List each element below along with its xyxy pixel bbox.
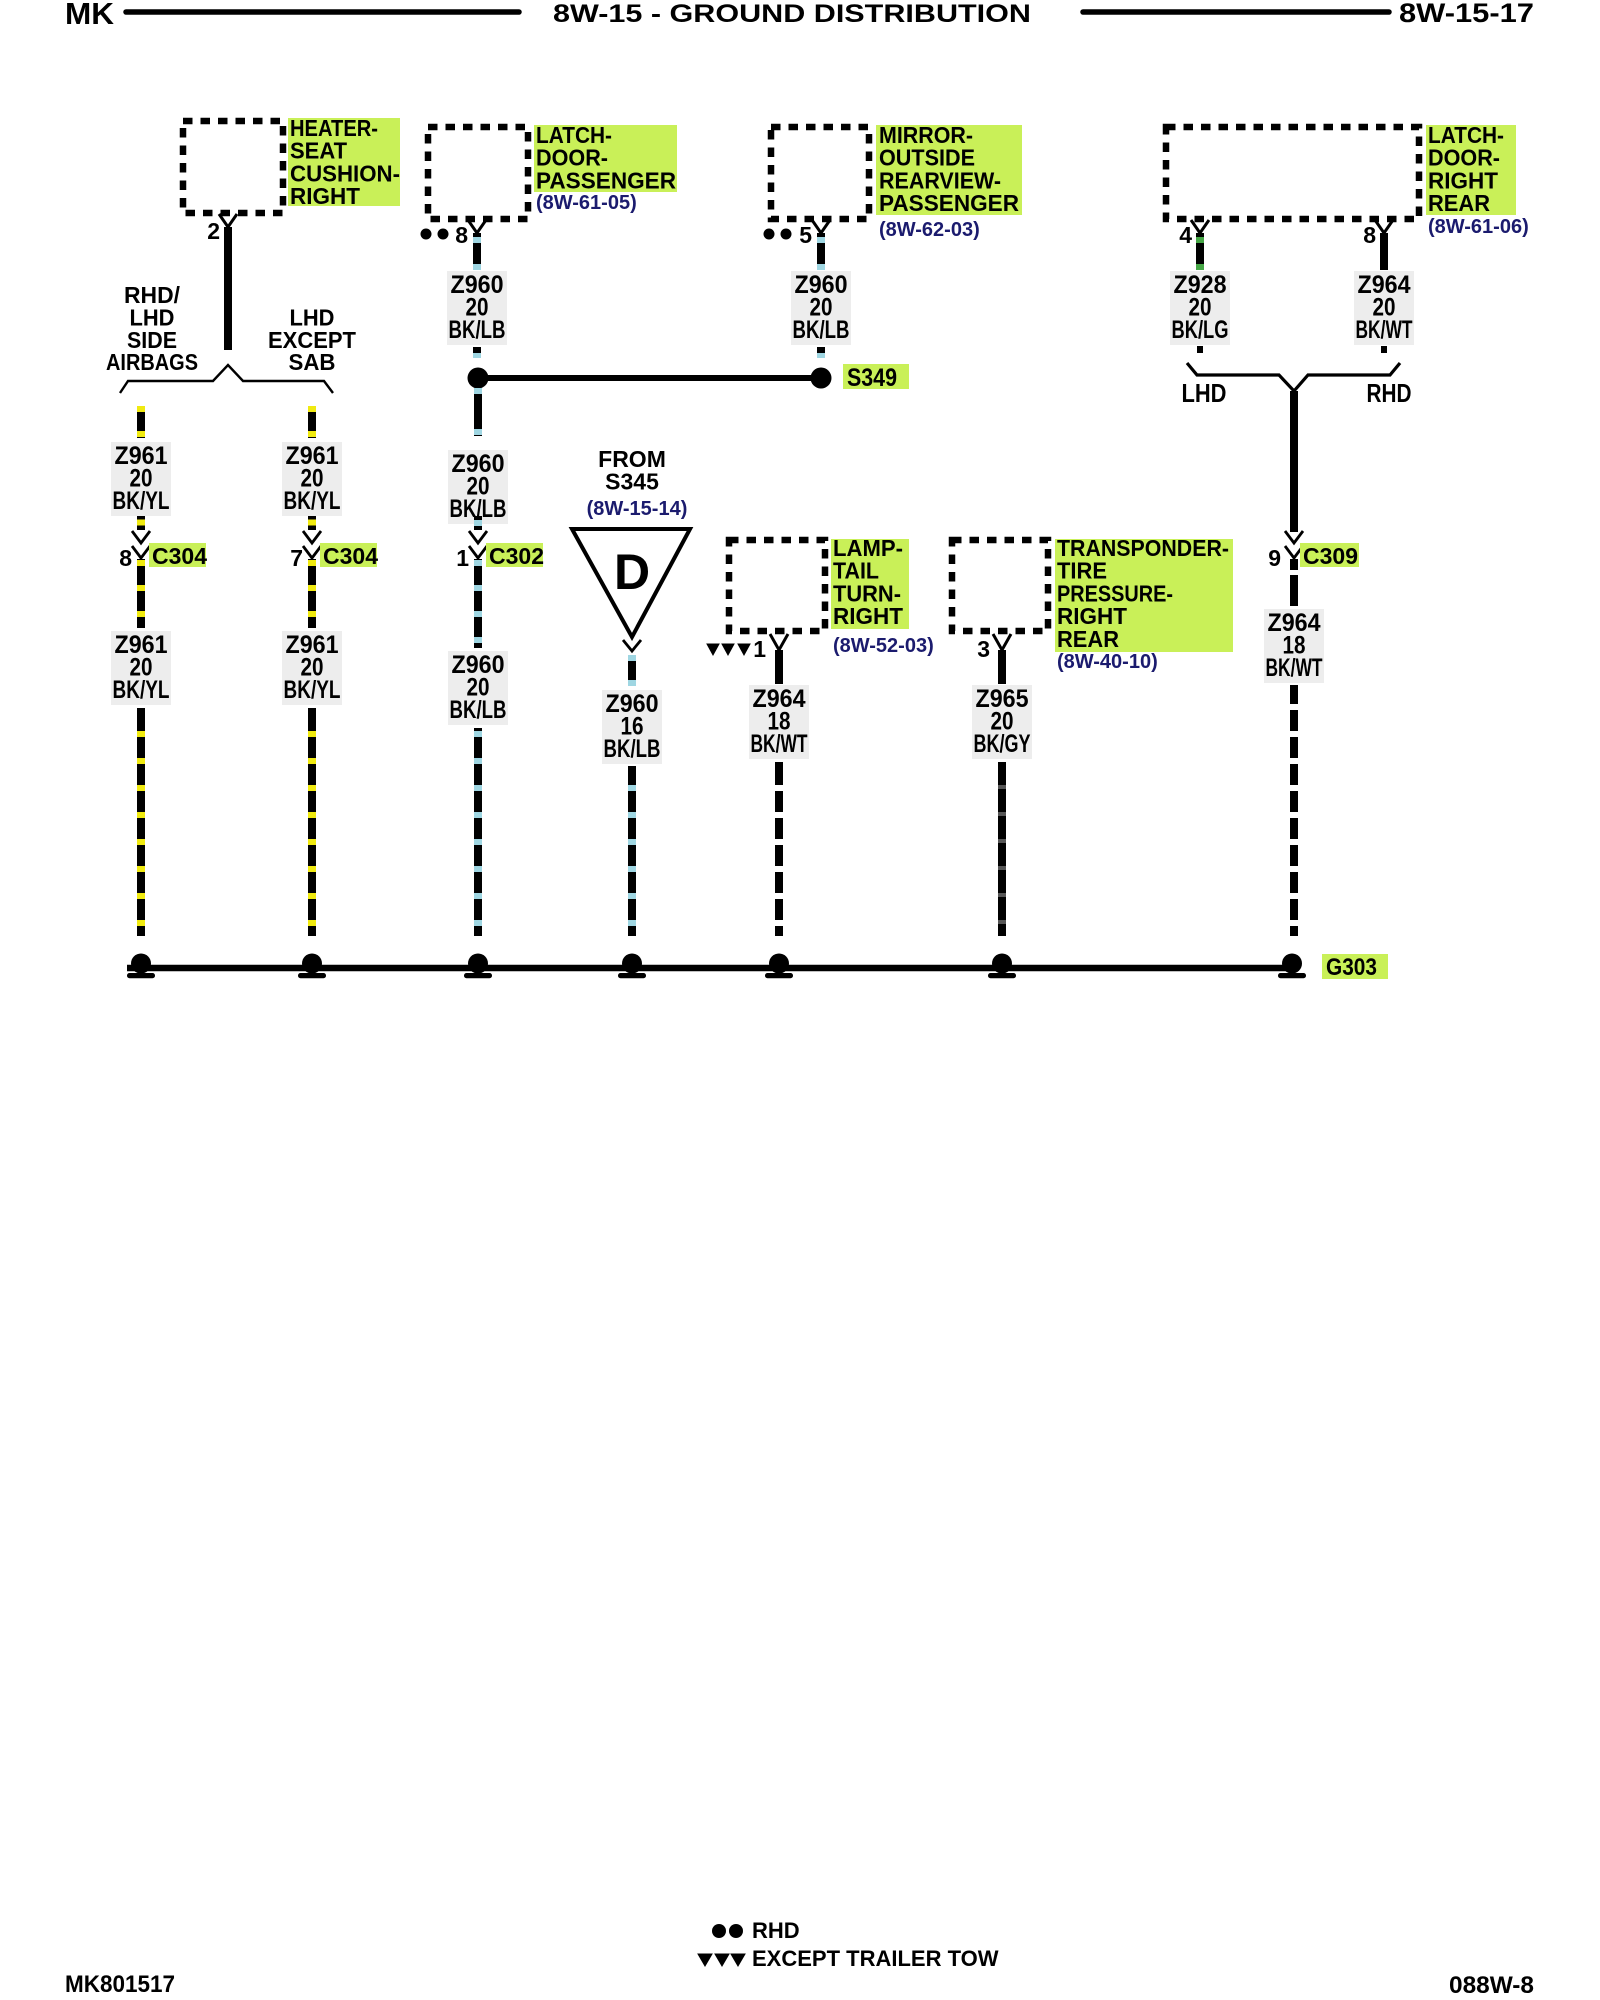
svg-text:(8W-61-06): (8W-61-06) [1428,216,1529,238]
svg-text:RIGHT: RIGHT [833,603,903,629]
svg-text:EXCEPT TRAILER TOW: EXCEPT TRAILER TOW [752,1946,999,1971]
svg-text:G303: G303 [1326,954,1377,981]
svg-text:RHD: RHD [752,1918,800,1943]
svg-text:LHD: LHD [1182,378,1227,408]
svg-text:8W-15-17: 8W-15-17 [1399,0,1534,28]
svg-text:BK/WT: BK/WT [1356,316,1413,344]
svg-text:(8W-62-03): (8W-62-03) [879,219,980,241]
svg-text:BK/LB: BK/LB [793,316,850,344]
svg-text:C302: C302 [489,543,544,569]
svg-text:C309: C309 [1303,543,1358,569]
svg-text:REAR: REAR [1428,190,1490,216]
svg-text:8W-15 - GROUND DISTRIBUTION: 8W-15 - GROUND DISTRIBUTION [553,0,1031,28]
svg-text:4: 4 [1179,222,1192,248]
svg-text:AIRBAGS: AIRBAGS [106,349,198,375]
svg-text:(8W-40-10): (8W-40-10) [1057,651,1158,673]
svg-text:PASSENGER: PASSENGER [879,190,1019,216]
svg-text:MK801517: MK801517 [65,1971,175,1998]
svg-text:MK: MK [65,0,115,31]
svg-text:S345: S345 [605,469,659,495]
svg-text:BK/YL: BK/YL [113,487,170,515]
svg-text:(8W-61-05): (8W-61-05) [536,192,637,214]
svg-text:BK/LG: BK/LG [1172,316,1229,344]
svg-text:7: 7 [290,545,303,571]
svg-text:BK/YL: BK/YL [284,487,341,515]
svg-text:REAR: REAR [1057,626,1119,652]
svg-text:C304: C304 [152,543,207,569]
svg-text:BK/WT: BK/WT [751,730,808,758]
svg-text:(8W-52-03): (8W-52-03) [833,635,934,657]
svg-text:BK/LB: BK/LB [449,316,506,344]
svg-text:5: 5 [799,222,812,248]
svg-text:PASSENGER: PASSENGER [536,167,676,193]
svg-text:BK/LB: BK/LB [604,735,661,763]
svg-text:D: D [614,544,650,600]
svg-text:9: 9 [1268,545,1281,571]
svg-text:S349: S349 [847,364,897,392]
svg-text:RIGHT: RIGHT [290,183,360,209]
svg-text:BK/WT: BK/WT [1266,654,1323,682]
svg-text:BK/GY: BK/GY [974,730,1031,758]
svg-text:BK/YL: BK/YL [113,676,170,704]
svg-text:088W-8: 088W-8 [1449,1972,1534,1999]
svg-text:1: 1 [456,545,469,571]
svg-text:BK/YL: BK/YL [284,676,341,704]
svg-text:C304: C304 [323,543,378,569]
svg-text:8: 8 [119,545,132,571]
svg-text:(8W-15-14): (8W-15-14) [587,498,688,520]
svg-text:BK/LB: BK/LB [450,696,507,724]
svg-text:8: 8 [455,222,468,248]
svg-text:2: 2 [207,218,220,244]
svg-text:1: 1 [753,636,766,662]
svg-text:8: 8 [1363,222,1376,248]
svg-text:SAB: SAB [289,349,336,375]
svg-text:RHD: RHD [1367,378,1412,408]
svg-text:3: 3 [977,636,990,662]
